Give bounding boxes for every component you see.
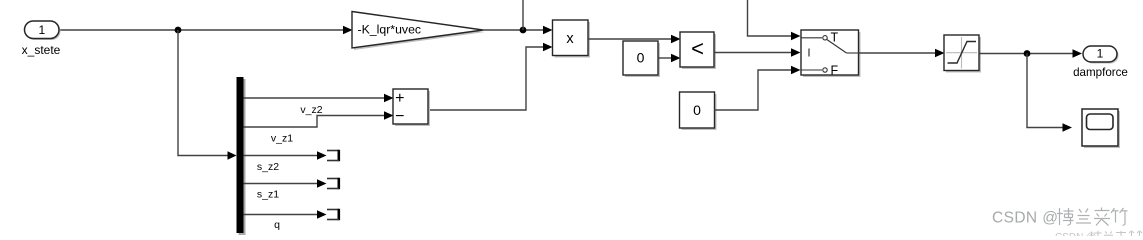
node junction on x_stete wire [175,27,182,34]
svg-text:CSDN @: CSDN @ [992,210,1058,227]
wire constant 0 to relational operator [658,54,681,62]
wire from top into switch T input [748,0,801,40]
outport 1 dampforce [1073,46,1128,79]
scope block [1082,109,1120,148]
gain -K_lqr*uvec [352,12,485,51]
wire switch to saturation [859,49,945,57]
svg-text:0: 0 [693,102,701,118]
terminator 2 [327,178,339,189]
svg-text:0: 0 [637,50,645,66]
product block x [553,20,591,58]
svg-text:v_z1: v_z1 [271,133,293,145]
hanzi yi [1094,208,1110,226]
svg-text:dampforce: dampforce [1073,66,1128,79]
watermark faint bottom [1055,231,1142,240]
terminator 3 [327,209,339,220]
inport 1 x_stete [22,21,61,57]
wire demux out5 q to terminator [244,210,327,218]
svg-text:−: − [395,108,404,125]
hanzi zhu [1111,208,1128,226]
saturation block [944,35,981,73]
svg-text:x: x [566,31,574,47]
demux [237,77,246,235]
svg-text:x_stete: x_stete [22,43,61,57]
node junction after gain [520,27,527,34]
wire demux out3 s_z2 to terminator [244,151,327,159]
terminator 1 [327,150,339,161]
wire from top into junction [522,0,524,30]
wire constant 0 lower to switch F input [715,66,801,110]
wire sum output to product second input [428,43,553,110]
wire saturation to outport [979,49,1082,57]
wire relational operator to switch control [714,48,801,56]
svg-text:<: < [691,36,704,61]
watermark CSDN [992,208,1128,227]
wire junction down to demux input [178,30,237,160]
hanzi lan [1076,209,1091,224]
wire gain to product [483,26,553,34]
relational operator < [680,32,716,69]
switch block [801,30,861,78]
wire demux out2 v_z1 to sum - [244,111,394,127]
svg-text:v_z2: v_z2 [300,104,322,116]
node junction after saturation [1024,50,1031,57]
svg-text:s_z1: s_z1 [257,189,279,201]
sum block [393,89,430,126]
constant 0 (upper) [623,41,660,77]
svg-text:1: 1 [39,23,46,37]
wire product to relational operator [588,35,681,43]
svg-text:1: 1 [1097,47,1104,61]
wire from inport x_stete to gain [59,26,353,34]
svg-text:F: F [831,64,839,78]
svg-text:+: + [395,90,404,107]
wire junction down to scope [1027,54,1072,132]
svg-text:CSDN @: CSDN @ [1055,232,1096,236]
wire demux out4 s_z1 to terminator [244,179,327,187]
constant 0 (lower) [680,92,717,130]
svg-text:-K_lqr*uvec: -K_lqr*uvec [358,23,422,37]
svg-text:q: q [274,219,280,231]
hanzi bo [1057,208,1074,226]
wire demux out1 v_z2 to sum + [244,94,394,102]
svg-text:s_z2: s_z2 [257,161,279,173]
